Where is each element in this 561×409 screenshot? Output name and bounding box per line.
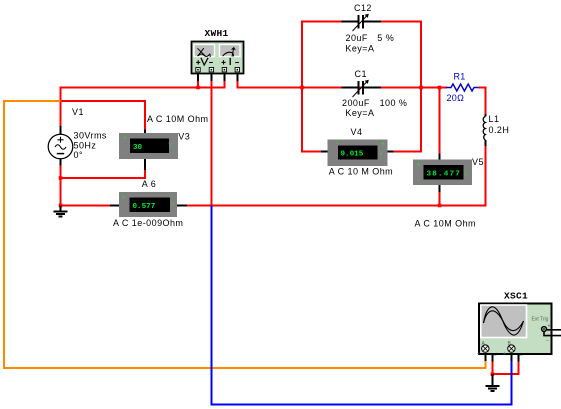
voltmeter V4 — [321, 127, 394, 177]
voltmeter V5 — [413, 154, 484, 229]
node: junction V1 / V3 bottom — [59, 176, 63, 180]
node: junction V5 top / top net — [438, 86, 442, 90]
wire: C12 top right red — [381, 22, 422, 153]
node: junction XWH1 pin1 / top net — [196, 86, 200, 90]
svg-text:V: V — [169, 143, 173, 149]
wire: XWH1 pin2 vertical red down to bottom net — [210, 81, 212, 206]
svg-text:Key=A: Key=A — [345, 108, 374, 118]
svg-text:_: _ — [545, 336, 549, 342]
svg-text:9.015: 9.015 — [341, 151, 364, 159]
svg-text:XWH1: XWH1 — [205, 28, 229, 39]
capacitor C1 (variable) — [342, 69, 408, 118]
resistor R1 — [446, 72, 478, 104]
wire: XWH1 pin4 lead + horizontal to R1 — [237, 81, 446, 88]
svg-text:XSC1: XSC1 — [504, 291, 528, 302]
svg-text:+: + — [548, 324, 551, 330]
wire: top horizontal V1 to XWH1 pin3 — [60, 87, 225, 89]
wattmeter XWH1 — [192, 28, 244, 81]
svg-text:A C 10M Ohm: A C 10M Ohm — [147, 114, 208, 124]
ground (scope) — [486, 374, 500, 391]
AC source V1 — [48, 107, 107, 166]
wire: XWH1 pin3 lead red — [223, 81, 225, 89]
wire: bottom net A6 to L1 corner — [187, 205, 486, 207]
capacitor C12 (variable) — [342, 3, 395, 54]
oscilloscope XSC1 — [477, 291, 561, 362]
svg-text:38.477: 38.477 — [427, 171, 462, 179]
wire: blue scope channel B — [211, 206, 511, 405]
wire: V1 top vertical red — [60, 89, 62, 127]
svg-text:+: + — [477, 351, 480, 357]
svg-text:V: V — [379, 152, 383, 158]
svg-text:A: A — [171, 203, 176, 209]
svg-text:+: + — [503, 351, 506, 357]
svg-text:A 6: A 6 — [142, 179, 156, 189]
svg-text:0°: 0° — [74, 150, 84, 160]
svg-text:0.2H: 0.2H — [489, 125, 510, 135]
inductor L1 — [483, 114, 509, 146]
voltmeter V3 — [119, 114, 208, 170]
svg-text:50Hz: 50Hz — [74, 141, 97, 151]
node: junction V1 bottom / ground — [59, 204, 63, 208]
svg-text:_: _ — [519, 351, 523, 357]
svg-text:C12: C12 — [354, 3, 372, 13]
svg-text:20uF: 20uF — [346, 33, 368, 43]
wire: XWH1 pin1 lead red — [197, 81, 199, 89]
wire: V5 top vertical red — [439, 89, 441, 154]
wire: V4 left lead red — [302, 151, 322, 153]
wire: V4 right lead red — [393, 151, 421, 153]
svg-text:R1: R1 — [454, 72, 466, 82]
wire: scope A- to B- with ground tap — [492, 361, 518, 374]
svg-text:V1: V1 — [72, 107, 84, 117]
svg-text:+: + — [122, 195, 126, 202]
wire: V1 bottom vertical red — [60, 165, 62, 207]
svg-text:30Vrms: 30Vrms — [74, 131, 107, 141]
svg-text:L1: L1 — [489, 114, 500, 124]
ammeter A6 — [110, 179, 187, 228]
wire: red from V1 vertical to V3 top — [61, 101, 146, 130]
wire: orange scope channel A — [4, 101, 485, 368]
svg-text:A C 10 M Ohm: A C 10 M Ohm — [329, 167, 393, 177]
node: junction C-loop right / top net — [419, 86, 423, 90]
wire: C-loop left vertical — [302, 22, 342, 153]
svg-text:V5: V5 — [472, 157, 484, 167]
node: junction C-loop left / top net — [300, 86, 304, 90]
wire: R1 right to L1 top — [479, 88, 486, 115]
svg-text:V: V — [464, 172, 468, 178]
svg-text:30: 30 — [133, 144, 143, 152]
svg-text:A C 1e-009Ohm: A C 1e-009Ohm — [113, 218, 183, 228]
wire: V5 bottom red — [439, 192, 441, 207]
svg-text:+: + — [417, 162, 421, 169]
svg-text:0.577: 0.577 — [133, 203, 156, 211]
svg-text:_: _ — [493, 351, 497, 357]
svg-text:20Ω: 20Ω — [447, 93, 465, 103]
node: junction scope ground — [491, 372, 495, 376]
node: junction V5 bottom / bottom net — [438, 204, 442, 208]
wire: L1 bottom red — [484, 146, 486, 207]
svg-text:5 %: 5 % — [377, 33, 394, 43]
svg-text:+: + — [123, 135, 127, 142]
svg-text:+: + — [381, 141, 385, 148]
svg-text:200uF: 200uF — [342, 98, 370, 108]
svg-text:V3: V3 — [178, 132, 190, 142]
wire: V3 bottom to V1 vertical — [60, 170, 146, 179]
svg-text:C1: C1 — [355, 69, 367, 79]
svg-text:Key=A: Key=A — [345, 44, 374, 54]
svg-text:100 %: 100 % — [380, 98, 408, 108]
svg-text:V4: V4 — [351, 127, 363, 137]
svg-text:Ext Trig: Ext Trig — [532, 317, 549, 323]
svg-text:A C 10M Ohm: A C 10M Ohm — [415, 219, 476, 229]
ground (left, V1) — [54, 206, 68, 217]
wire: bottom net left segment (ground to A6) — [61, 205, 111, 207]
